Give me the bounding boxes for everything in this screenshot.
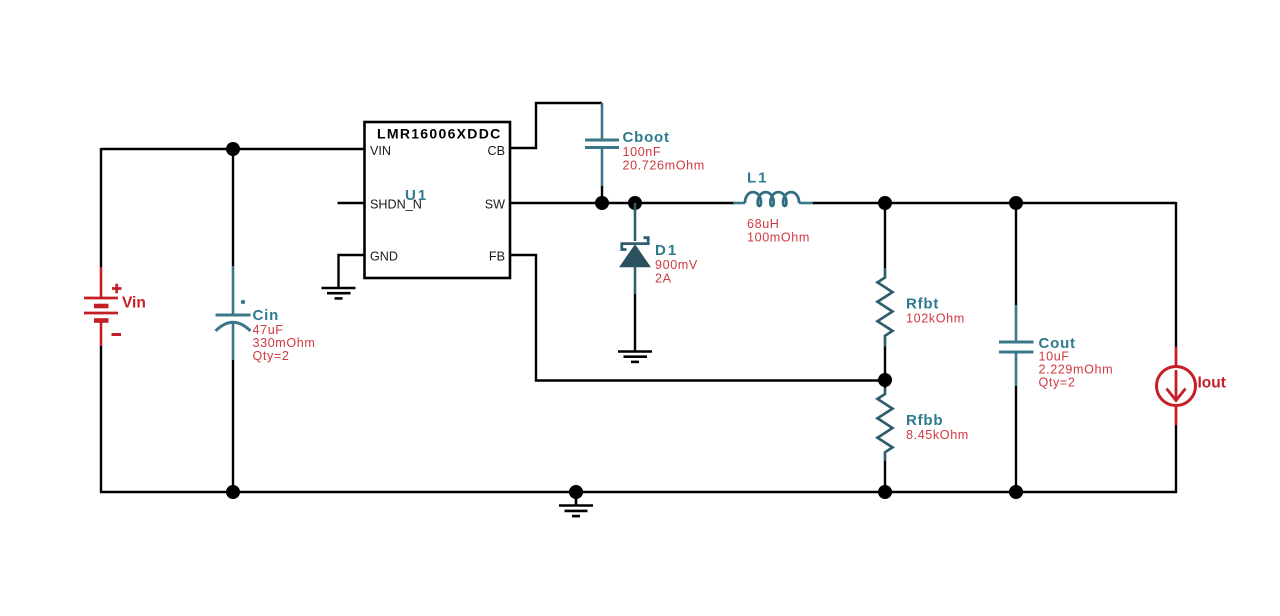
svg-text:LMR16006XDDC: LMR16006XDDC xyxy=(377,126,502,142)
svg-text:Rfbt: Rfbt xyxy=(906,296,939,313)
node junction Rfbb/bottom rail xyxy=(878,485,892,499)
node junction Cout top xyxy=(1009,196,1023,210)
wire SW to D1 cathode xyxy=(634,203,637,241)
svg-text:8.45kOhm: 8.45kOhm xyxy=(906,428,969,442)
svg-text:L1: L1 xyxy=(747,170,769,187)
svg-text:SW: SW xyxy=(485,198,505,212)
node junction Cboot/SW xyxy=(595,196,609,210)
node junction ground/bottom rail xyxy=(569,485,583,499)
capacitor Cin (polarized) xyxy=(216,266,251,360)
svg-text:Vin: Vin xyxy=(122,295,146,312)
svg-text:Iout: Iout xyxy=(1198,375,1226,392)
svg-text:CB: CB xyxy=(488,144,506,158)
svg-text:Qty=2: Qty=2 xyxy=(253,349,290,363)
svg-text:330mOhm: 330mOhm xyxy=(253,336,316,350)
svg-text:GND: GND xyxy=(370,250,398,264)
current source Iout xyxy=(1157,347,1196,425)
wire Rfbt to FB node xyxy=(884,347,886,381)
svg-text:Cboot: Cboot xyxy=(623,129,670,146)
svg-text:U1: U1 xyxy=(405,187,428,204)
node junction Cout/bottom rail xyxy=(1009,485,1023,499)
wire right vertical (Iout branch) xyxy=(1175,202,1177,493)
svg-text:Rfbb: Rfbb xyxy=(906,412,943,429)
node junction Cin/bottom rail xyxy=(226,485,240,499)
wire left vertical (Vin branch) xyxy=(100,148,102,493)
wire top from Vin to U1 VIN pin xyxy=(101,148,364,150)
svg-text:100nF: 100nF xyxy=(623,145,662,159)
wire Rfbb to bottom rail xyxy=(884,461,886,492)
svg-text:68uH: 68uH xyxy=(747,217,780,231)
svg-text:2A: 2A xyxy=(655,272,672,286)
svg-text:FB: FB xyxy=(489,250,505,264)
wire CB pin to Cboot top xyxy=(510,103,602,148)
svg-text:100mOhm: 100mOhm xyxy=(747,231,810,245)
node junction D1/SW xyxy=(628,196,642,210)
wire GND pin to ground xyxy=(339,255,365,287)
diode D1 (schottky) xyxy=(621,238,650,294)
ground at bottom rail xyxy=(559,492,593,516)
svg-text:2.229mOhm: 2.229mOhm xyxy=(1039,363,1114,377)
ground at U1 GND xyxy=(322,288,356,298)
wire Cboot bottom to SW node xyxy=(601,186,603,203)
IC U1 LMR16006XDDC body xyxy=(365,122,511,278)
wire FB node to Rfbb xyxy=(884,380,886,388)
wire bottom rail xyxy=(100,491,1177,493)
wire SHDN_N stub xyxy=(338,202,365,204)
svg-text:20.726mOhm: 20.726mOhm xyxy=(623,159,705,173)
svg-text:D1: D1 xyxy=(655,242,678,259)
wire Cout branch vertical xyxy=(1015,203,1017,492)
svg-text:Cin: Cin xyxy=(253,307,280,324)
wire SW rail xyxy=(510,202,1176,204)
battery Vin xyxy=(84,267,122,346)
node junction L1/Rfbt xyxy=(878,196,892,210)
wire D1 anode to ground xyxy=(634,294,636,351)
resistor Rfbt xyxy=(878,268,893,347)
wire Cin branch vertical xyxy=(232,149,234,492)
node junction Vin/Cin on top rail xyxy=(226,142,240,156)
resistor Rfbb xyxy=(878,388,893,461)
svg-text:VIN: VIN xyxy=(370,144,391,158)
ground at D1 xyxy=(618,352,652,362)
capacitor Cout xyxy=(999,305,1034,386)
capacitor Cboot xyxy=(585,103,619,186)
svg-text:10uF: 10uF xyxy=(1039,350,1070,364)
svg-text:Qty=2: Qty=2 xyxy=(1039,376,1076,390)
wire SW node down to Rfbt xyxy=(884,203,886,268)
node junction FB xyxy=(878,373,892,387)
wire FB pin to FB node xyxy=(510,255,885,381)
svg-text:102kOhm: 102kOhm xyxy=(906,312,965,326)
svg-text:900mV: 900mV xyxy=(655,258,698,272)
svg-text:47uF: 47uF xyxy=(253,323,284,337)
inductor L1 xyxy=(733,192,813,206)
